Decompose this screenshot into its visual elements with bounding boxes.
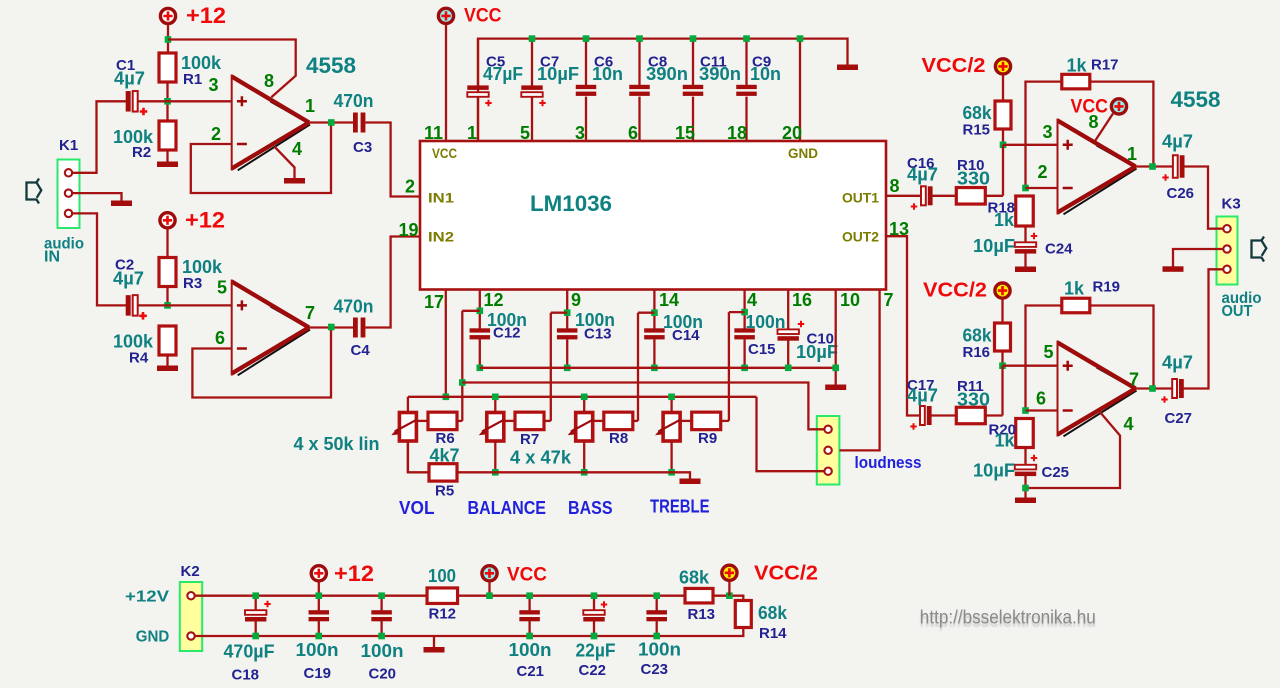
ground (pin 10) bbox=[825, 385, 846, 391]
svg-text:GND: GND bbox=[788, 145, 818, 161]
svg-text:13: 13 bbox=[889, 219, 909, 239]
capacitor C26 bbox=[1173, 155, 1178, 178]
resistor R2 bbox=[159, 121, 176, 150]
svg-text:4 x 50k lin: 4 x 50k lin bbox=[294, 434, 380, 454]
wire LM1036 pin 14 to C14 bbox=[653, 290, 655, 329]
svg-text:R2: R2 bbox=[132, 144, 151, 161]
wire pot BALANCE wiper to R7 bbox=[504, 420, 515, 422]
wire LM1036 pin 15 / C11 bbox=[692, 39, 694, 86]
wire R10 riser bbox=[1002, 145, 1004, 196]
wire C15 to ground rail bbox=[743, 339, 745, 368]
svg-text:6: 6 bbox=[215, 328, 225, 348]
capacitor C18 bbox=[255, 596, 257, 611]
svg-text:10n: 10n bbox=[592, 64, 623, 84]
wire VCC/2 to R16 bbox=[1001, 298, 1003, 323]
capacitor C10 bbox=[778, 329, 799, 334]
svg-text:4: 4 bbox=[292, 139, 302, 159]
svg-text:8: 8 bbox=[890, 176, 900, 196]
wire C14 to ground rail bbox=[653, 339, 655, 368]
svg-text:C12: C12 bbox=[493, 325, 521, 342]
node VCC junction bbox=[486, 592, 493, 599]
wire LM1036 pin 6 / C8 bbox=[638, 39, 640, 86]
power symbol +12 (bottom) bbox=[311, 566, 326, 581]
wire pot TREBLE top bbox=[670, 397, 672, 413]
svg-text:12: 12 bbox=[484, 290, 504, 310]
svg-text:1: 1 bbox=[1127, 144, 1137, 164]
svg-text:7: 7 bbox=[884, 290, 894, 310]
svg-text:100k: 100k bbox=[181, 53, 222, 73]
ground (K3 pin 2) bbox=[1163, 266, 1184, 272]
svg-text:R19: R19 bbox=[1093, 279, 1121, 296]
svg-text:VCC/2: VCC/2 bbox=[923, 280, 987, 302]
svg-text:VCC/2: VCC/2 bbox=[922, 55, 986, 77]
ground (U1A pin 4) bbox=[284, 178, 305, 184]
svg-text:3: 3 bbox=[1043, 122, 1053, 142]
wire LM1036 pin 16 / C10 bbox=[787, 290, 789, 330]
ground (K1 pin 2) bbox=[111, 201, 132, 207]
svg-text:330: 330 bbox=[957, 169, 990, 189]
wire U2A output to C26 bbox=[1136, 165, 1173, 167]
node pin17/rail junction bbox=[443, 394, 450, 401]
svg-text:470n: 470n bbox=[334, 297, 374, 317]
svg-text:100n: 100n bbox=[638, 640, 681, 660]
node bus junction pin 20 bbox=[797, 35, 804, 42]
svg-text:1: 1 bbox=[467, 123, 477, 143]
resistor R7 bbox=[515, 412, 544, 430]
svg-text:C13: C13 bbox=[584, 326, 612, 343]
svg-text:22µF: 22µF bbox=[576, 641, 616, 661]
wire pot rail 4 (bottom) through R5 bbox=[408, 441, 429, 472]
svg-text:16: 16 bbox=[792, 290, 812, 310]
capacitor C27 bbox=[1172, 379, 1177, 398]
svg-text:6: 6 bbox=[1036, 389, 1046, 409]
svg-text:10µF: 10µF bbox=[796, 342, 838, 362]
wire pot VOL bottom bbox=[407, 441, 409, 472]
svg-text:2: 2 bbox=[1038, 162, 1048, 182]
capacitor C20 bbox=[380, 596, 382, 611]
svg-text:OUT2: OUT2 bbox=[842, 229, 879, 245]
power symbol VCC/2 (channel 1) bbox=[995, 59, 1010, 74]
wire loudness rail 2 bbox=[462, 383, 825, 430]
wire GND rail bbox=[194, 627, 743, 636]
ground (GND rail) bbox=[433, 636, 435, 648]
node stub junction pin 9 bbox=[564, 309, 571, 316]
svg-text:68k: 68k bbox=[963, 103, 993, 123]
wire stub pin 9 bbox=[551, 312, 567, 314]
svg-text:4: 4 bbox=[747, 290, 757, 310]
wire C2 to op-amp U1B + input bbox=[138, 304, 232, 306]
svg-text:R12: R12 bbox=[429, 606, 457, 623]
svg-text:17: 17 bbox=[424, 292, 444, 312]
capacitor C19 bbox=[318, 596, 320, 611]
svg-text:4µ7: 4µ7 bbox=[1162, 132, 1193, 152]
svg-text:4µ7: 4µ7 bbox=[114, 69, 145, 89]
wire C1 to op-amp U1A + input bbox=[138, 100, 232, 102]
svg-text:C26: C26 bbox=[1167, 185, 1195, 202]
resistor R15 bbox=[995, 101, 1011, 129]
svg-text:100n: 100n bbox=[296, 640, 339, 660]
wire C25 to ground bbox=[1024, 476, 1026, 498]
capacitor C4 bbox=[353, 318, 358, 338]
svg-text:5: 5 bbox=[520, 123, 530, 143]
wire R19 left to - input bbox=[1026, 306, 1063, 411]
power symbol +12 (second) bbox=[160, 213, 175, 228]
svg-text:390n: 390n bbox=[646, 64, 688, 84]
wire U1A feedback loop bbox=[191, 123, 331, 194]
svg-text:VCC: VCC bbox=[432, 145, 457, 161]
svg-text:8: 8 bbox=[264, 71, 274, 91]
svg-text:15: 15 bbox=[675, 123, 695, 143]
node +12 junction bbox=[165, 36, 172, 43]
node U2A - input junction bbox=[1022, 185, 1029, 192]
node U1A output junction bbox=[328, 119, 335, 126]
wire +12 rail bbox=[194, 595, 427, 597]
wire R2 to ground bbox=[166, 150, 168, 162]
svg-text:C25: C25 bbox=[1042, 464, 1070, 481]
wire C17 to R11 bbox=[932, 414, 957, 416]
wire - input to U2A bbox=[1026, 187, 1058, 189]
svg-text:C23: C23 bbox=[641, 661, 669, 678]
wire riser R9 bbox=[728, 312, 730, 421]
svg-text:C15: C15 bbox=[748, 341, 776, 358]
op-amp U1B bbox=[232, 282, 309, 374]
svg-text:R13: R13 bbox=[688, 606, 716, 623]
wire U2B output to C27 bbox=[1136, 387, 1172, 389]
node R13/R14/VCC2 junction bbox=[726, 592, 733, 599]
node stub junction pin 4 bbox=[741, 309, 748, 316]
wire LM1036 pin 18 / C9 bbox=[745, 39, 747, 86]
op-amp U1A bbox=[232, 77, 309, 169]
capacitor C5 bbox=[467, 85, 488, 90]
resistor R19 bbox=[1062, 298, 1090, 313]
wire pot top rail 3 bbox=[408, 396, 757, 398]
potentiometer TREBLE (P9) bbox=[663, 413, 680, 442]
capacitor C12 bbox=[470, 328, 491, 332]
wire K1 pin1 to C1 bbox=[71, 101, 126, 173]
capacitor C13 bbox=[557, 328, 578, 332]
IC LM1036 bbox=[420, 141, 886, 290]
node C12 bottom junction bbox=[477, 365, 484, 372]
svg-text:C21: C21 bbox=[517, 663, 545, 680]
capacitor C3 bbox=[353, 113, 358, 133]
svg-text:C18: C18 bbox=[232, 667, 260, 684]
wire VCC/2 stem bbox=[728, 581, 730, 596]
svg-text:10µF: 10µF bbox=[537, 64, 579, 84]
svg-text:4µ7: 4µ7 bbox=[907, 165, 938, 185]
wire C27 to K3 pin 3 bbox=[1184, 269, 1224, 388]
svg-text:K3: K3 bbox=[1222, 196, 1241, 213]
ground (pot rail) bbox=[680, 479, 701, 485]
wire to U2B + input bbox=[1003, 365, 1058, 367]
resistor R4 bbox=[159, 326, 176, 355]
svg-text:K1: K1 bbox=[59, 137, 78, 154]
wire pot VOL wiper to R6 bbox=[416, 420, 428, 422]
svg-text:1k: 1k bbox=[1067, 56, 1088, 76]
wire R6 to riser bbox=[457, 420, 462, 422]
wire pot TREBLE bottom bbox=[670, 441, 672, 472]
capacitor C2 bbox=[126, 295, 131, 316]
svg-text:+12: +12 bbox=[334, 561, 374, 586]
connector K3 bbox=[1217, 217, 1238, 285]
wire C4 to LM1036 IN2 bbox=[366, 237, 421, 328]
svg-text:R1: R1 bbox=[183, 71, 202, 88]
svg-text:390n: 390n bbox=[699, 64, 741, 84]
svg-text:C27: C27 bbox=[1165, 410, 1193, 427]
svg-text:3: 3 bbox=[209, 75, 219, 95]
resistor R11 bbox=[956, 407, 985, 424]
svg-text:R7: R7 bbox=[520, 431, 539, 448]
wire LM1036 pin 3 / C6 bbox=[585, 39, 587, 86]
svg-text:2: 2 bbox=[405, 177, 415, 197]
node stub junction pin 12 bbox=[477, 308, 484, 315]
potentiometer BALANCE (P7) bbox=[487, 413, 504, 442]
op-amp U2A bbox=[1058, 121, 1136, 213]
wire U1B output bbox=[309, 326, 353, 328]
svg-text:18: 18 bbox=[727, 123, 747, 143]
node pot BALANCE top junction bbox=[492, 394, 499, 401]
wire U2B pin 4 to ground net bbox=[1026, 412, 1121, 489]
svg-text:10µF: 10µF bbox=[973, 461, 1015, 481]
resistor R6 bbox=[428, 412, 457, 430]
op-amp U2B bbox=[1058, 343, 1136, 435]
capacitor C6 bbox=[576, 85, 597, 89]
svg-text:4µ7: 4µ7 bbox=[113, 269, 144, 289]
connector loudness bbox=[817, 416, 840, 485]
wire op-amp U1A pin4 to ground bbox=[275, 147, 295, 179]
svg-text:68k: 68k bbox=[758, 603, 788, 623]
wire R20 to C25 bbox=[1024, 447, 1026, 465]
wire R15 to junction bbox=[1002, 129, 1004, 145]
node R3/R4/C2 junction bbox=[164, 302, 171, 309]
output arrow symbol bbox=[1252, 237, 1267, 262]
svg-text:4558: 4558 bbox=[306, 53, 356, 78]
svg-text:R16: R16 bbox=[963, 344, 991, 361]
wire riser R7 bbox=[550, 313, 552, 421]
wire LM1036 pin 20 bbox=[799, 39, 801, 141]
wire VCC to U2A pin 8 bbox=[1095, 114, 1113, 142]
svg-text:C24: C24 bbox=[1045, 241, 1073, 258]
node U1B output junction bbox=[328, 324, 335, 331]
node C13 bottom junction bbox=[564, 365, 571, 372]
svg-text:1k: 1k bbox=[1064, 279, 1085, 299]
svg-text:K2: K2 bbox=[181, 563, 200, 580]
resistor R17 bbox=[1062, 74, 1090, 89]
wire R16 to junction bbox=[1001, 351, 1003, 366]
capacitor C7 bbox=[521, 85, 542, 90]
svg-text:100k: 100k bbox=[113, 332, 154, 352]
svg-text:GND: GND bbox=[136, 629, 170, 646]
capacitor C1 bbox=[126, 91, 131, 112]
svg-text:C22: C22 bbox=[579, 662, 607, 679]
power symbol VCC (top) bbox=[438, 8, 453, 23]
svg-text:3: 3 bbox=[575, 123, 585, 143]
svg-text:47µF: 47µF bbox=[483, 64, 523, 84]
svg-text:C20: C20 bbox=[369, 666, 397, 683]
wire R19 right to output bbox=[1090, 306, 1154, 389]
svg-text:C19: C19 bbox=[304, 665, 332, 682]
node pot BASS top junction bbox=[581, 394, 588, 401]
svg-text:VCC: VCC bbox=[507, 565, 547, 586]
node bus junction at C6 bbox=[583, 35, 590, 42]
wire R8 to riser bbox=[633, 420, 638, 422]
wire C24 to ground bbox=[1024, 253, 1026, 267]
svg-text:R5: R5 bbox=[435, 483, 454, 500]
svg-text:5: 5 bbox=[217, 278, 227, 298]
svg-text:VCC: VCC bbox=[1071, 97, 1109, 118]
svg-text:9: 9 bbox=[571, 290, 581, 310]
svg-text:10: 10 bbox=[840, 290, 860, 310]
capacitor C9 bbox=[736, 85, 757, 89]
node stub junction pin 14 bbox=[651, 309, 658, 316]
node R1/R2/C1 junction bbox=[164, 98, 171, 105]
svg-text:C4: C4 bbox=[351, 342, 371, 359]
wire pot BASS top bbox=[583, 397, 585, 413]
wire LM1036 pin 1 / C5 bbox=[477, 39, 479, 86]
node C15 bottom junction bbox=[741, 365, 748, 372]
node riser/loudness-rail junction bbox=[459, 379, 466, 386]
resistor R20 bbox=[1016, 419, 1034, 448]
svg-text:100n: 100n bbox=[509, 640, 552, 660]
svg-text:TREBLE: TREBLE bbox=[650, 497, 710, 517]
wire C12 to ground rail bbox=[479, 339, 481, 368]
svg-text:14: 14 bbox=[659, 290, 679, 310]
svg-text:OUT1: OUT1 bbox=[842, 190, 879, 206]
node bus junction at C8 bbox=[636, 35, 643, 42]
svg-text:100: 100 bbox=[428, 566, 456, 586]
wire ground rail 1 (cap bottoms) bbox=[480, 367, 836, 369]
wire R1 to node bbox=[166, 82, 168, 121]
svg-text:OUT: OUT bbox=[1222, 303, 1253, 320]
wire C26 to K3 pin 1 bbox=[1185, 167, 1224, 229]
resistor R3 bbox=[159, 258, 176, 287]
wire LM1036 pin 9 to C13 bbox=[566, 290, 568, 329]
svg-text:20: 20 bbox=[782, 123, 802, 143]
wire R11 to riser bbox=[986, 414, 1003, 416]
capacitor C11 bbox=[683, 85, 704, 89]
svg-text:7: 7 bbox=[1129, 370, 1139, 390]
node pot BALANCE bottom junction bbox=[492, 469, 499, 476]
potentiometer BASS (P8) bbox=[576, 413, 593, 442]
svg-text:R3: R3 bbox=[183, 275, 202, 292]
wire LM1036 pin 7 to loudness bbox=[840, 290, 880, 451]
wire C13 to ground rail bbox=[566, 339, 568, 368]
node U2A + input junction bbox=[1000, 142, 1007, 149]
svg-text:C3: C3 bbox=[353, 139, 372, 156]
svg-text:470µF: 470µF bbox=[224, 642, 275, 662]
wire +12 stem bbox=[318, 581, 320, 596]
wire riser R8 bbox=[637, 313, 639, 421]
svg-text:BASS: BASS bbox=[568, 498, 613, 518]
wire LM1036 pin 10 to ground bbox=[835, 290, 837, 385]
resistor R14 bbox=[735, 601, 751, 628]
wire pot TREBLE wiper to R9 bbox=[680, 420, 692, 422]
wire +12 to R1 bbox=[167, 24, 169, 53]
node pot TREBLE top junction bbox=[668, 394, 675, 401]
svg-text:R6: R6 bbox=[436, 430, 455, 447]
resistor R9 bbox=[692, 412, 721, 430]
wire ground bus (top) bbox=[478, 39, 848, 141]
svg-text:C14: C14 bbox=[672, 327, 700, 344]
svg-text:+12: +12 bbox=[185, 208, 225, 233]
svg-text:1k: 1k bbox=[995, 431, 1016, 451]
wire riser R6 (VOL wiper net) bbox=[461, 311, 463, 421]
svg-text:470n: 470n bbox=[334, 91, 374, 111]
connector K1 bbox=[58, 160, 80, 229]
svg-text:R17: R17 bbox=[1091, 57, 1119, 74]
wire VCC to LM1036 pin 11 bbox=[445, 24, 447, 141]
wire stub pin 14 bbox=[638, 312, 654, 314]
wire +12 rail to op-amp U1A pin 8 bbox=[168, 40, 296, 98]
capacitor C21 bbox=[528, 596, 530, 611]
wire U1B feedback loop bbox=[192, 328, 331, 398]
wire pot BALANCE top bbox=[494, 397, 496, 413]
capacitor C14 bbox=[644, 328, 665, 332]
power symbol VCC/2 (channel 2) bbox=[995, 283, 1010, 298]
wire - input to U2B bbox=[1026, 409, 1058, 411]
svg-text:10µF: 10µF bbox=[973, 236, 1015, 256]
node bus junction at C9 bbox=[743, 35, 750, 42]
input arrow symbol bbox=[27, 179, 42, 204]
ground (below R4) bbox=[157, 366, 178, 372]
wire R18 to C24 bbox=[1024, 226, 1026, 243]
wire pot BALANCE bottom bbox=[494, 441, 496, 472]
svg-text:1k: 1k bbox=[994, 210, 1015, 230]
wire LM1036 pin 4 to C15 bbox=[743, 290, 745, 329]
wire pot BASS bottom bbox=[583, 441, 585, 472]
wire R3 to node bbox=[166, 287, 168, 306]
node C10 bottom junction bbox=[785, 365, 792, 372]
capacitor C16 bbox=[921, 186, 926, 205]
svg-text:R9: R9 bbox=[698, 430, 717, 447]
ground (below R2) bbox=[157, 162, 178, 168]
wire K1 pin2 to ground bbox=[71, 193, 122, 200]
connector K2 bbox=[180, 582, 202, 651]
svg-text:1: 1 bbox=[305, 96, 315, 116]
svg-text:+12V: +12V bbox=[125, 589, 169, 606]
svg-text:R14: R14 bbox=[759, 625, 787, 642]
capacitor C25 bbox=[1015, 465, 1036, 470]
svg-text:4µ7: 4µ7 bbox=[1162, 353, 1193, 373]
power symbol +12 (top left) bbox=[160, 8, 175, 23]
svg-text:R8: R8 bbox=[609, 430, 628, 447]
potentiometer VOL (P6) bbox=[399, 413, 416, 442]
wire LM1036 OUT1 to C16 bbox=[886, 195, 921, 197]
svg-text:R15: R15 bbox=[963, 122, 991, 139]
svg-text:4µ7: 4µ7 bbox=[907, 386, 938, 406]
wire K3 pin2 to ground bbox=[1173, 249, 1223, 267]
node U2B - input junction bbox=[1022, 407, 1029, 414]
wire R17 right to output bbox=[1090, 82, 1154, 167]
svg-text:5: 5 bbox=[1044, 342, 1054, 362]
capacitor C23 bbox=[656, 596, 658, 611]
svg-text:4558: 4558 bbox=[1171, 87, 1221, 112]
resistor R8 bbox=[604, 412, 633, 430]
svg-text:100k: 100k bbox=[182, 257, 223, 277]
wire stub pin 4 bbox=[729, 311, 745, 313]
resistor R5 bbox=[429, 464, 457, 481]
wire LM1036 OUT2 to C17 bbox=[886, 236, 920, 415]
node bus junction at C11 bbox=[690, 35, 697, 42]
wire VCC/2 to R15 bbox=[1002, 74, 1004, 101]
resistor R10 bbox=[956, 188, 985, 205]
svg-text:VCC/2: VCC/2 bbox=[754, 563, 818, 585]
power symbol VCC (bottom) bbox=[482, 566, 497, 581]
wire VCC stem bbox=[488, 581, 490, 596]
wire U1A output bbox=[309, 121, 353, 123]
svg-text:7: 7 bbox=[305, 303, 315, 323]
node C25/pin4 ground junction bbox=[1022, 485, 1029, 492]
svg-text:IN1: IN1 bbox=[428, 190, 454, 206]
